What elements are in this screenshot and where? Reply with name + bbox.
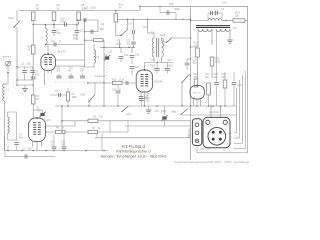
svg-text:SG3: SG3: [160, 33, 166, 37]
svg-text:C21: C21: [143, 26, 148, 29]
svg-text:SG5: SG5: [194, 74, 199, 76]
svg-text:Frequenz: Frequenz: [95, 75, 106, 78]
svg-text:5000: 5000: [168, 66, 174, 68]
svg-text:300: 300: [61, 143, 66, 146]
svg-text:C24: C24: [124, 54, 129, 57]
svg-text:A◆1: A◆1: [172, 111, 177, 114]
svg-text:2700: 2700: [60, 19, 66, 23]
svg-text:SG4: SG4: [126, 113, 131, 116]
svg-text:Sender / Empfänger 33,8 – 38,0: Sender / Empfänger 33,8 – 38,0 MHz: [100, 154, 166, 159]
svg-text:D0D105: D0D105: [154, 82, 163, 84]
svg-text:+50V: +50V: [227, 133, 233, 135]
svg-text:C20: C20: [127, 41, 132, 43]
svg-text:Antenne: Antenne: [2, 56, 12, 59]
svg-text:500: 500: [27, 63, 32, 66]
svg-text:C16: C16: [100, 24, 105, 26]
svg-text:Ca9: Ca9: [222, 74, 227, 76]
svg-text:Ca7: Ca7: [205, 74, 210, 76]
svg-text:C32: C32: [238, 85, 243, 87]
svg-text:+1,2V: +1,2V: [226, 143, 232, 145]
svg-text:DB3: DB3: [81, 94, 86, 97]
svg-text:300: 300: [57, 32, 62, 35]
svg-text:300: 300: [56, 69, 61, 72]
svg-text:C25: C25: [150, 59, 155, 61]
svg-text:C27: C27: [135, 66, 140, 69]
svg-text:C27: C27: [155, 110, 160, 113]
svg-text:C18: C18: [128, 23, 133, 26]
svg-text:C19: C19: [169, 3, 174, 6]
svg-text:RL1,P2: RL1,P2: [43, 119, 52, 122]
svg-text:300k: 300k: [194, 77, 200, 79]
svg-text:5000: 5000: [91, 7, 97, 10]
svg-text:C19: C19: [222, 1, 227, 4]
svg-text:300: 300: [35, 73, 40, 76]
svg-text:1M: 1M: [36, 7, 39, 10]
svg-text:C15: C15: [84, 7, 89, 10]
svg-text:300k: 300k: [72, 96, 78, 99]
svg-text:C26: C26: [168, 60, 173, 62]
svg-text:Gesamtempfangsrauschzahl (DB1: Gesamtempfangsrauschzahl (DB1 – 3DB) · E…: [174, 160, 250, 164]
svg-text:300: 300: [28, 147, 33, 150]
svg-text:C22: C22: [108, 51, 113, 54]
svg-text:C28: C28: [214, 74, 219, 76]
svg-text:1M: 1M: [194, 44, 197, 47]
svg-text:C23: C23: [144, 96, 149, 98]
svg-text:100: 100: [193, 61, 198, 64]
svg-text:RL1,P3: RL1,P3: [193, 93, 201, 95]
svg-text:Mikrofon: Mikrofon: [188, 128, 191, 138]
svg-text:300: 300: [80, 69, 85, 72]
svg-text:C26: C26: [135, 54, 140, 57]
svg-text:Fernhörer: Fernhörer: [209, 111, 220, 114]
svg-text:100k: 100k: [215, 61, 221, 64]
svg-text:5000: 5000: [175, 9, 181, 11]
svg-text:SG1: SG1: [9, 16, 15, 20]
svg-text:Batterie-A: Batterie-A: [201, 148, 211, 151]
svg-text:RL2,P2: RL2,P2: [58, 51, 67, 54]
svg-text:5000: 5000: [150, 66, 156, 68]
svg-text:5000: 5000: [161, 110, 167, 113]
svg-text:Tr1: Tr1: [151, 31, 155, 35]
svg-text:R10: R10: [73, 35, 78, 37]
